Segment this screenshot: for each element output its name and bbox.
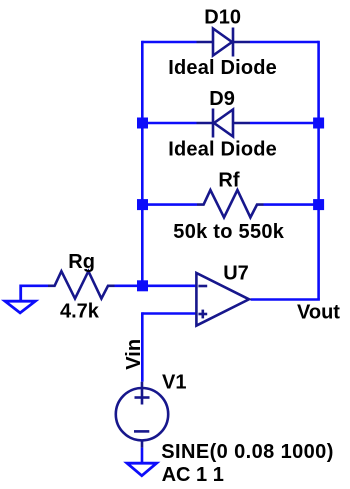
- voltage source V1 circle: [116, 388, 168, 440]
- svg-text:U7: U7: [223, 262, 249, 284]
- junction node (right, D9 row): [313, 118, 324, 129]
- wire: top horizontal left segment (D10 anode side): [142, 41, 196, 44]
- svg-text:Ideal Diode: Ideal Diode: [168, 138, 277, 160]
- wire: D9 row right segment: [250, 122, 319, 125]
- op-amp plus sign: [198, 310, 207, 319]
- resistor Rf: [197, 190, 264, 217]
- svg-text:4.7k: 4.7k: [60, 301, 100, 323]
- junction node (left, D9 row): [137, 118, 148, 129]
- svg-text:SINE(0 0.08 1000): SINE(0 0.08 1000): [161, 441, 333, 463]
- svg-text:V1: V1: [162, 372, 186, 394]
- junction node (inverting input): [137, 280, 148, 291]
- svg-text:Rf: Rf: [218, 169, 239, 191]
- wire: Rg to inverting input junction and op-amp minus input: [115, 284, 197, 287]
- op-amp minus sign: [198, 285, 207, 288]
- junction node (left, Rf row): [137, 199, 148, 210]
- wire: Vin vertical: [141, 312, 144, 382]
- V1 minus sign: [134, 430, 149, 433]
- wire: op-amp output to Vout node: [251, 298, 320, 301]
- diode D9: [197, 109, 251, 138]
- wire: Rf row left segment: [142, 203, 197, 206]
- wire: plus input horizontal: [142, 312, 196, 315]
- wire: Rf row right segment: [264, 203, 319, 206]
- svg-text:Ideal Diode: Ideal Diode: [168, 57, 277, 79]
- ground (left, at Rg): [5, 285, 35, 313]
- svg-text:Vout: Vout: [297, 302, 340, 324]
- wire: ground to Rg: [21, 284, 48, 287]
- svg-text:Vin: Vin: [123, 339, 145, 370]
- V1 bottom pin: [141, 440, 144, 447]
- wire: V1 bottom to ground: [141, 448, 144, 462]
- svg-text:AC 1 1: AC 1 1: [162, 464, 224, 486]
- V1 top pin and plus sign: [135, 382, 150, 405]
- svg-text:D10: D10: [204, 7, 241, 29]
- ground (bottom, at V1): [127, 463, 157, 476]
- svg-text:Rg: Rg: [68, 251, 95, 273]
- wire: right vertical bus: [317, 41, 320, 300]
- wire: top horizontal right segment (D10 cathode side): [250, 41, 319, 44]
- resistor Rg: [48, 271, 115, 298]
- svg-text:50k to 550k: 50k to 550k: [173, 221, 284, 243]
- wire: left vertical feedback bus: [141, 41, 144, 286]
- diode D10: [197, 28, 251, 57]
- junction node (right, Rf row): [313, 199, 324, 210]
- svg-text:D9: D9: [209, 88, 235, 110]
- wire: D9 row left segment: [142, 122, 196, 125]
- op-amp U7 triangle: [196, 273, 249, 326]
